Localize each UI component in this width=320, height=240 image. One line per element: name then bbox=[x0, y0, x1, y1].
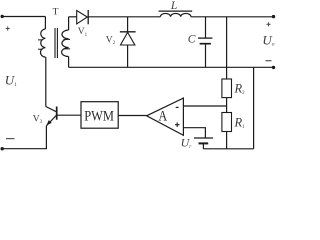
input + terminal dot bbox=[1, 15, 4, 18]
svg-text:A: A bbox=[158, 109, 167, 125]
svg-text:PWM: PWM bbox=[84, 109, 114, 125]
transformer primary junction curl ticks bbox=[38, 40, 42, 49]
inductor L humps bbox=[160, 13, 191, 16]
transistor V3 collector lead bbox=[45, 57, 47, 107]
svg-text:C: C bbox=[188, 33, 196, 45]
transistor V3 base bar bbox=[56, 107, 58, 120]
capacitor C bottom plate bbox=[200, 43, 211, 45]
wire secondary bottom lead bbox=[68, 57, 70, 68]
output bottom rail bbox=[69, 66, 274, 68]
wire L to output + terminal bbox=[191, 16, 274, 18]
wire input- to emitter bbox=[2, 126, 46, 149]
transistor V3 emitter diagonal bbox=[46, 115, 56, 126]
svg-text:T: T bbox=[53, 7, 59, 18]
op-amp A triangle bbox=[147, 98, 184, 135]
reference battery bottom lead bbox=[202, 143, 204, 148]
feedback divider column from top rail bbox=[226, 17, 228, 79]
diode V2 cathode bar bbox=[120, 31, 136, 33]
diode V2 branch top wire bbox=[127, 17, 129, 33]
wire transistor base to PWM bbox=[57, 114, 81, 116]
wire output minus rail to bottom right rail bbox=[253, 67, 255, 149]
reference battery bottom plate bbox=[199, 142, 209, 144]
bottom right rail bbox=[203, 148, 253, 150]
label + input left bbox=[6, 26, 10, 30]
label - output bbox=[266, 60, 272, 62]
wire input+ to transformer primary bbox=[2, 16, 45, 18]
transformer core line right bbox=[56, 28, 58, 58]
transformer secondary junction curl ticks bbox=[63, 39, 70, 49]
wire divider junction to op-amp inverting input bbox=[183, 105, 226, 107]
inductor L core bar bbox=[159, 10, 193, 12]
diode V1 cathode bar bbox=[87, 10, 89, 24]
op-amp non-inverting input tick bbox=[175, 122, 180, 127]
label - input left bbox=[6, 138, 15, 140]
capacitor C top plate bbox=[198, 37, 212, 39]
output + terminal dot bbox=[272, 15, 275, 18]
diode V2 bottom wire bbox=[127, 45, 129, 67]
resistor R1 box bbox=[222, 113, 232, 132]
transistor V3 collector diagonal bbox=[46, 107, 57, 112]
wire V1 to inductor L bbox=[88, 16, 160, 18]
transistor V3 emitter arrow bbox=[47, 120, 52, 125]
transformer core line left bbox=[54, 28, 56, 58]
transformer secondary winding bbox=[62, 30, 69, 57]
transformer T primary winding bbox=[41, 29, 46, 57]
reference battery top plate bbox=[194, 137, 213, 139]
diode V2 triangle bbox=[121, 32, 135, 45]
label + output bbox=[267, 22, 271, 26]
wire secondary top lead bbox=[68, 17, 70, 30]
op-amp inverting input tick bbox=[176, 106, 179, 108]
input - terminal dot bbox=[1, 147, 4, 150]
output - terminal dot bbox=[272, 66, 275, 69]
diode V1 triangle bbox=[77, 11, 88, 24]
wire op-amp output to PWM bbox=[118, 115, 146, 117]
wire R1 bottom to rail bbox=[226, 132, 228, 149]
resistor R2 box bbox=[222, 79, 232, 98]
wire R2 to R1 bbox=[226, 98, 228, 113]
capacitor C bottom wire bbox=[205, 44, 207, 68]
capacitor C top wire bbox=[205, 17, 207, 38]
PWM block box bbox=[81, 102, 118, 129]
svg-text:L: L bbox=[170, 0, 177, 12]
wire secondary top to diode V1 bbox=[69, 16, 77, 18]
wire primary top lead bbox=[44, 17, 46, 30]
wire op-amp plus input to reference bbox=[183, 128, 205, 138]
